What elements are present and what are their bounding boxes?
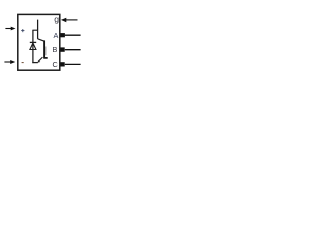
svg-text:C: C xyxy=(53,60,58,69)
svg-text:g: g xyxy=(54,14,59,24)
svg-text:B: B xyxy=(52,45,57,54)
svg-text:A: A xyxy=(53,31,58,40)
